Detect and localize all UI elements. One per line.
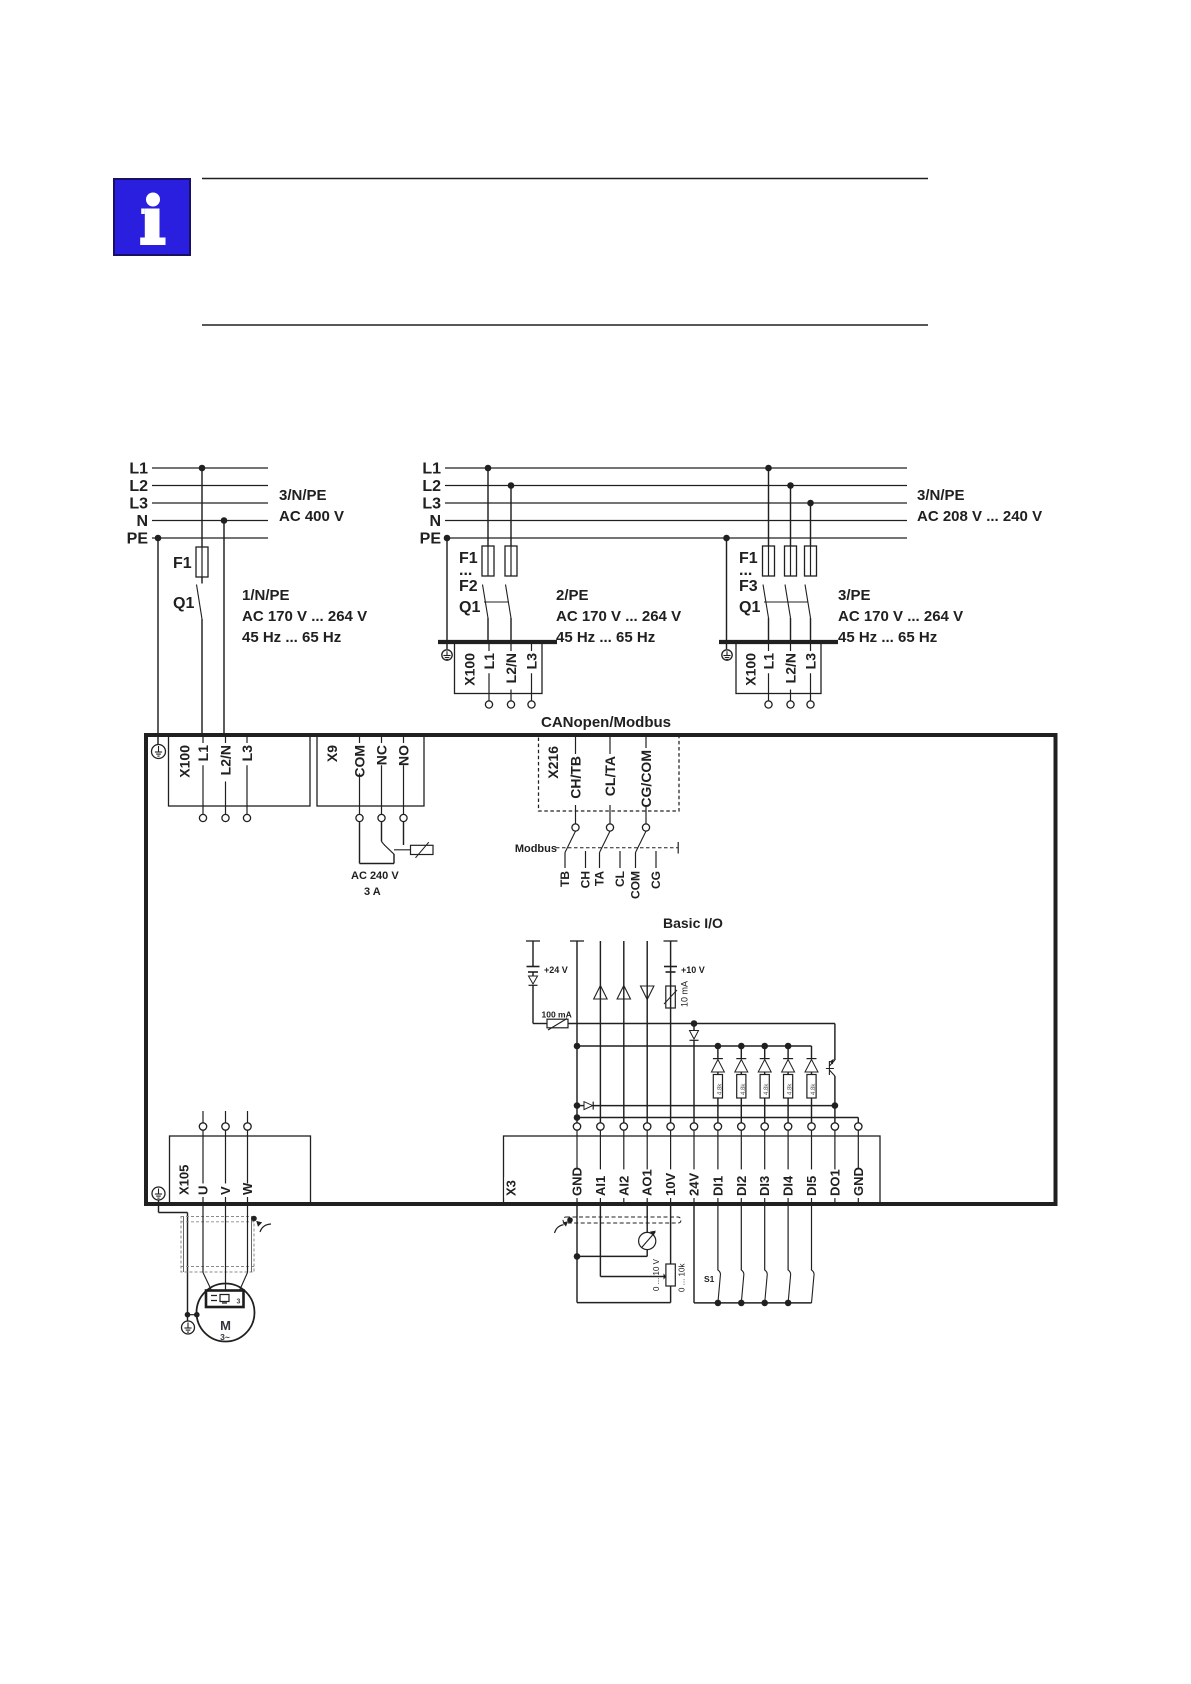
svg-text:S1: S1	[704, 1274, 715, 1284]
svg-text:DI3: DI3	[757, 1176, 772, 1196]
svg-text:4.8k: 4.8k	[741, 1083, 747, 1095]
svg-text:CL/TA: CL/TA	[602, 756, 618, 796]
svg-text:L3: L3	[803, 653, 819, 670]
svg-text:X9: X9	[324, 745, 340, 762]
svg-text:L3: L3	[239, 745, 255, 762]
svg-text:CH: CH	[579, 871, 593, 888]
svg-text:4.8k: 4.8k	[764, 1083, 770, 1095]
svg-text:AC 240 V: AC 240 V	[351, 870, 399, 882]
svg-text:TB: TB	[558, 871, 572, 887]
svg-text:3 A: 3 A	[364, 886, 381, 898]
svg-text:100 mA: 100 mA	[542, 1010, 572, 1020]
svg-text:L2: L2	[422, 478, 441, 495]
svg-text:L2/N: L2/N	[218, 745, 234, 775]
svg-text:4.8k: 4.8k	[788, 1083, 794, 1095]
svg-text:DI5: DI5	[804, 1176, 819, 1196]
svg-text:L1: L1	[195, 745, 211, 762]
svg-text:X105: X105	[177, 1165, 192, 1195]
svg-text:Q1: Q1	[459, 599, 480, 616]
svg-text:X100: X100	[743, 653, 759, 686]
svg-text:AC 170 V ... 264 V: AC 170 V ... 264 V	[838, 608, 963, 625]
svg-text:DI2: DI2	[734, 1176, 749, 1196]
svg-text:CG: CG	[649, 871, 663, 889]
svg-text:0 ... 10 V: 0 ... 10 V	[652, 1258, 661, 1291]
svg-text:F1: F1	[173, 555, 192, 572]
svg-text:10V: 10V	[663, 1173, 678, 1196]
svg-text:X100: X100	[462, 653, 478, 686]
svg-text:0 ... 10k: 0 ... 10k	[678, 1263, 687, 1292]
svg-text:U: U	[196, 1186, 211, 1195]
svg-text:1/N/PE: 1/N/PE	[242, 587, 290, 604]
svg-text:10 mA: 10 mA	[680, 981, 690, 1007]
svg-text:45 Hz ... 65 Hz: 45 Hz ... 65 Hz	[838, 629, 937, 646]
svg-text:L3: L3	[422, 496, 441, 513]
svg-text:+10 V: +10 V	[681, 965, 705, 975]
svg-text:X3: X3	[504, 1180, 519, 1196]
svg-text:Basic I/O: Basic I/O	[663, 915, 723, 931]
svg-text:L3: L3	[129, 496, 148, 513]
svg-text:4.8k: 4.8k	[811, 1083, 817, 1095]
svg-text:M: M	[220, 1318, 231, 1333]
svg-text:X216: X216	[545, 746, 561, 779]
svg-text:TA: TA	[593, 871, 607, 886]
svg-text:L1: L1	[481, 653, 497, 670]
svg-text:4.8k: 4.8k	[717, 1083, 723, 1095]
svg-text:Q1: Q1	[739, 599, 760, 616]
svg-text:W: W	[240, 1182, 255, 1195]
svg-text:...: ...	[739, 562, 752, 579]
svg-text:CANopen/Modbus: CANopen/Modbus	[541, 714, 671, 731]
svg-text:CL: CL	[613, 871, 627, 887]
svg-text:Modbus: Modbus	[515, 843, 557, 855]
svg-text:Q1: Q1	[173, 595, 194, 612]
svg-text:L1: L1	[761, 653, 777, 670]
svg-text:AI2: AI2	[616, 1176, 631, 1196]
svg-text:DI1: DI1	[710, 1176, 725, 1196]
svg-text:COM: COM	[629, 871, 643, 899]
svg-text:3/PE: 3/PE	[838, 587, 871, 604]
svg-text:L3: L3	[524, 653, 540, 670]
svg-text:AO1: AO1	[640, 1169, 655, 1196]
svg-text:PE: PE	[127, 531, 149, 548]
svg-text:3/N/PE: 3/N/PE	[279, 487, 327, 504]
svg-text:V: V	[218, 1186, 233, 1195]
svg-text:3~: 3~	[220, 1332, 230, 1342]
svg-text:AC 170 V ... 264 V: AC 170 V ... 264 V	[556, 608, 681, 625]
svg-text:N: N	[429, 513, 441, 530]
svg-text:L1: L1	[422, 461, 441, 478]
svg-text:L1: L1	[129, 461, 148, 478]
svg-text:X100: X100	[177, 745, 193, 778]
svg-text:+24 V: +24 V	[544, 965, 568, 975]
svg-text:DO1: DO1	[827, 1169, 842, 1196]
svg-text:GND: GND	[570, 1167, 585, 1196]
svg-text:AC 208 V ... 240 V: AC 208 V ... 240 V	[917, 508, 1042, 525]
svg-text:PE: PE	[420, 531, 442, 548]
svg-text:AC 170 V ... 264 V: AC 170 V ... 264 V	[242, 608, 367, 625]
svg-text:F3: F3	[739, 578, 758, 595]
svg-text:F2: F2	[459, 578, 478, 595]
svg-text:2/PE: 2/PE	[556, 587, 589, 604]
svg-text:CH/TB: CH/TB	[568, 756, 584, 799]
svg-text:DI4: DI4	[781, 1175, 796, 1196]
svg-text:3/N/PE: 3/N/PE	[917, 487, 965, 504]
svg-text:COM: COM	[352, 745, 368, 778]
svg-text:24V: 24V	[687, 1173, 702, 1196]
svg-text:AC 400 V: AC 400 V	[279, 508, 344, 525]
svg-text:CG/COM: CG/COM	[638, 750, 654, 808]
svg-text:L2/N: L2/N	[783, 653, 799, 683]
svg-text:...: ...	[459, 562, 472, 579]
svg-text:45 Hz ... 65 Hz: 45 Hz ... 65 Hz	[556, 629, 655, 646]
svg-text:NO: NO	[396, 745, 412, 766]
svg-text:GND: GND	[851, 1167, 866, 1196]
svg-text:L2: L2	[129, 478, 148, 495]
svg-text:3: 3	[237, 1299, 241, 1306]
svg-text:N: N	[136, 513, 148, 530]
svg-text:L2/N: L2/N	[503, 653, 519, 683]
svg-text:NC: NC	[374, 745, 390, 765]
svg-text:AI1: AI1	[593, 1176, 608, 1196]
svg-text:45 Hz ... 65 Hz: 45 Hz ... 65 Hz	[242, 629, 341, 646]
